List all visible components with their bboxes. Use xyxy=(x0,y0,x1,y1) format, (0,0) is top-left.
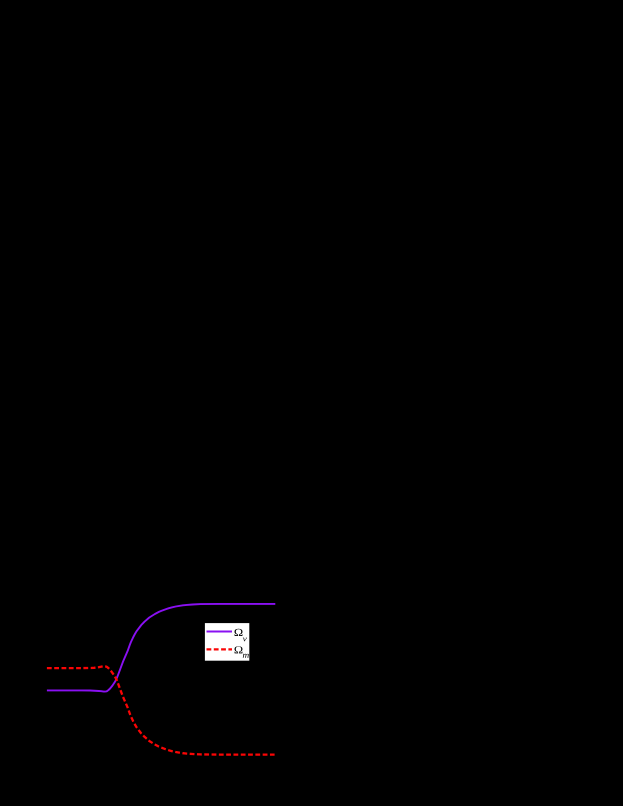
curve Omega_m (red dashed, falling sigmoid) xyxy=(47,666,275,754)
legend sample line Omega_m xyxy=(207,648,233,650)
curve Omega_v (purple solid, rising sigmoid) xyxy=(47,604,275,692)
legend label Omega_m xyxy=(234,646,248,658)
legend box xyxy=(205,623,249,661)
legend sample line Omega_v xyxy=(207,631,233,633)
legend label Omega_v xyxy=(234,629,246,642)
